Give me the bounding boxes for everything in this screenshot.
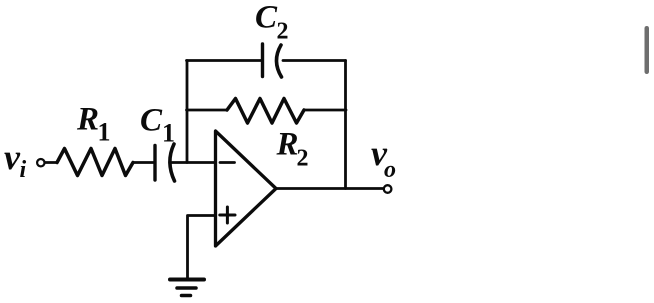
- svg-text:v: v: [4, 137, 21, 177]
- svg-text:2: 2: [277, 19, 289, 45]
- svg-text:C: C: [255, 0, 278, 36]
- svg-text:R: R: [76, 102, 99, 138]
- svg-text:2: 2: [297, 146, 309, 172]
- svg-text:C: C: [140, 103, 163, 139]
- svg-text:1: 1: [98, 118, 111, 147]
- svg-text:i: i: [20, 157, 27, 183]
- svg-text:o: o: [384, 157, 396, 183]
- svg-text:R: R: [276, 127, 299, 163]
- svg-text:1: 1: [162, 119, 175, 148]
